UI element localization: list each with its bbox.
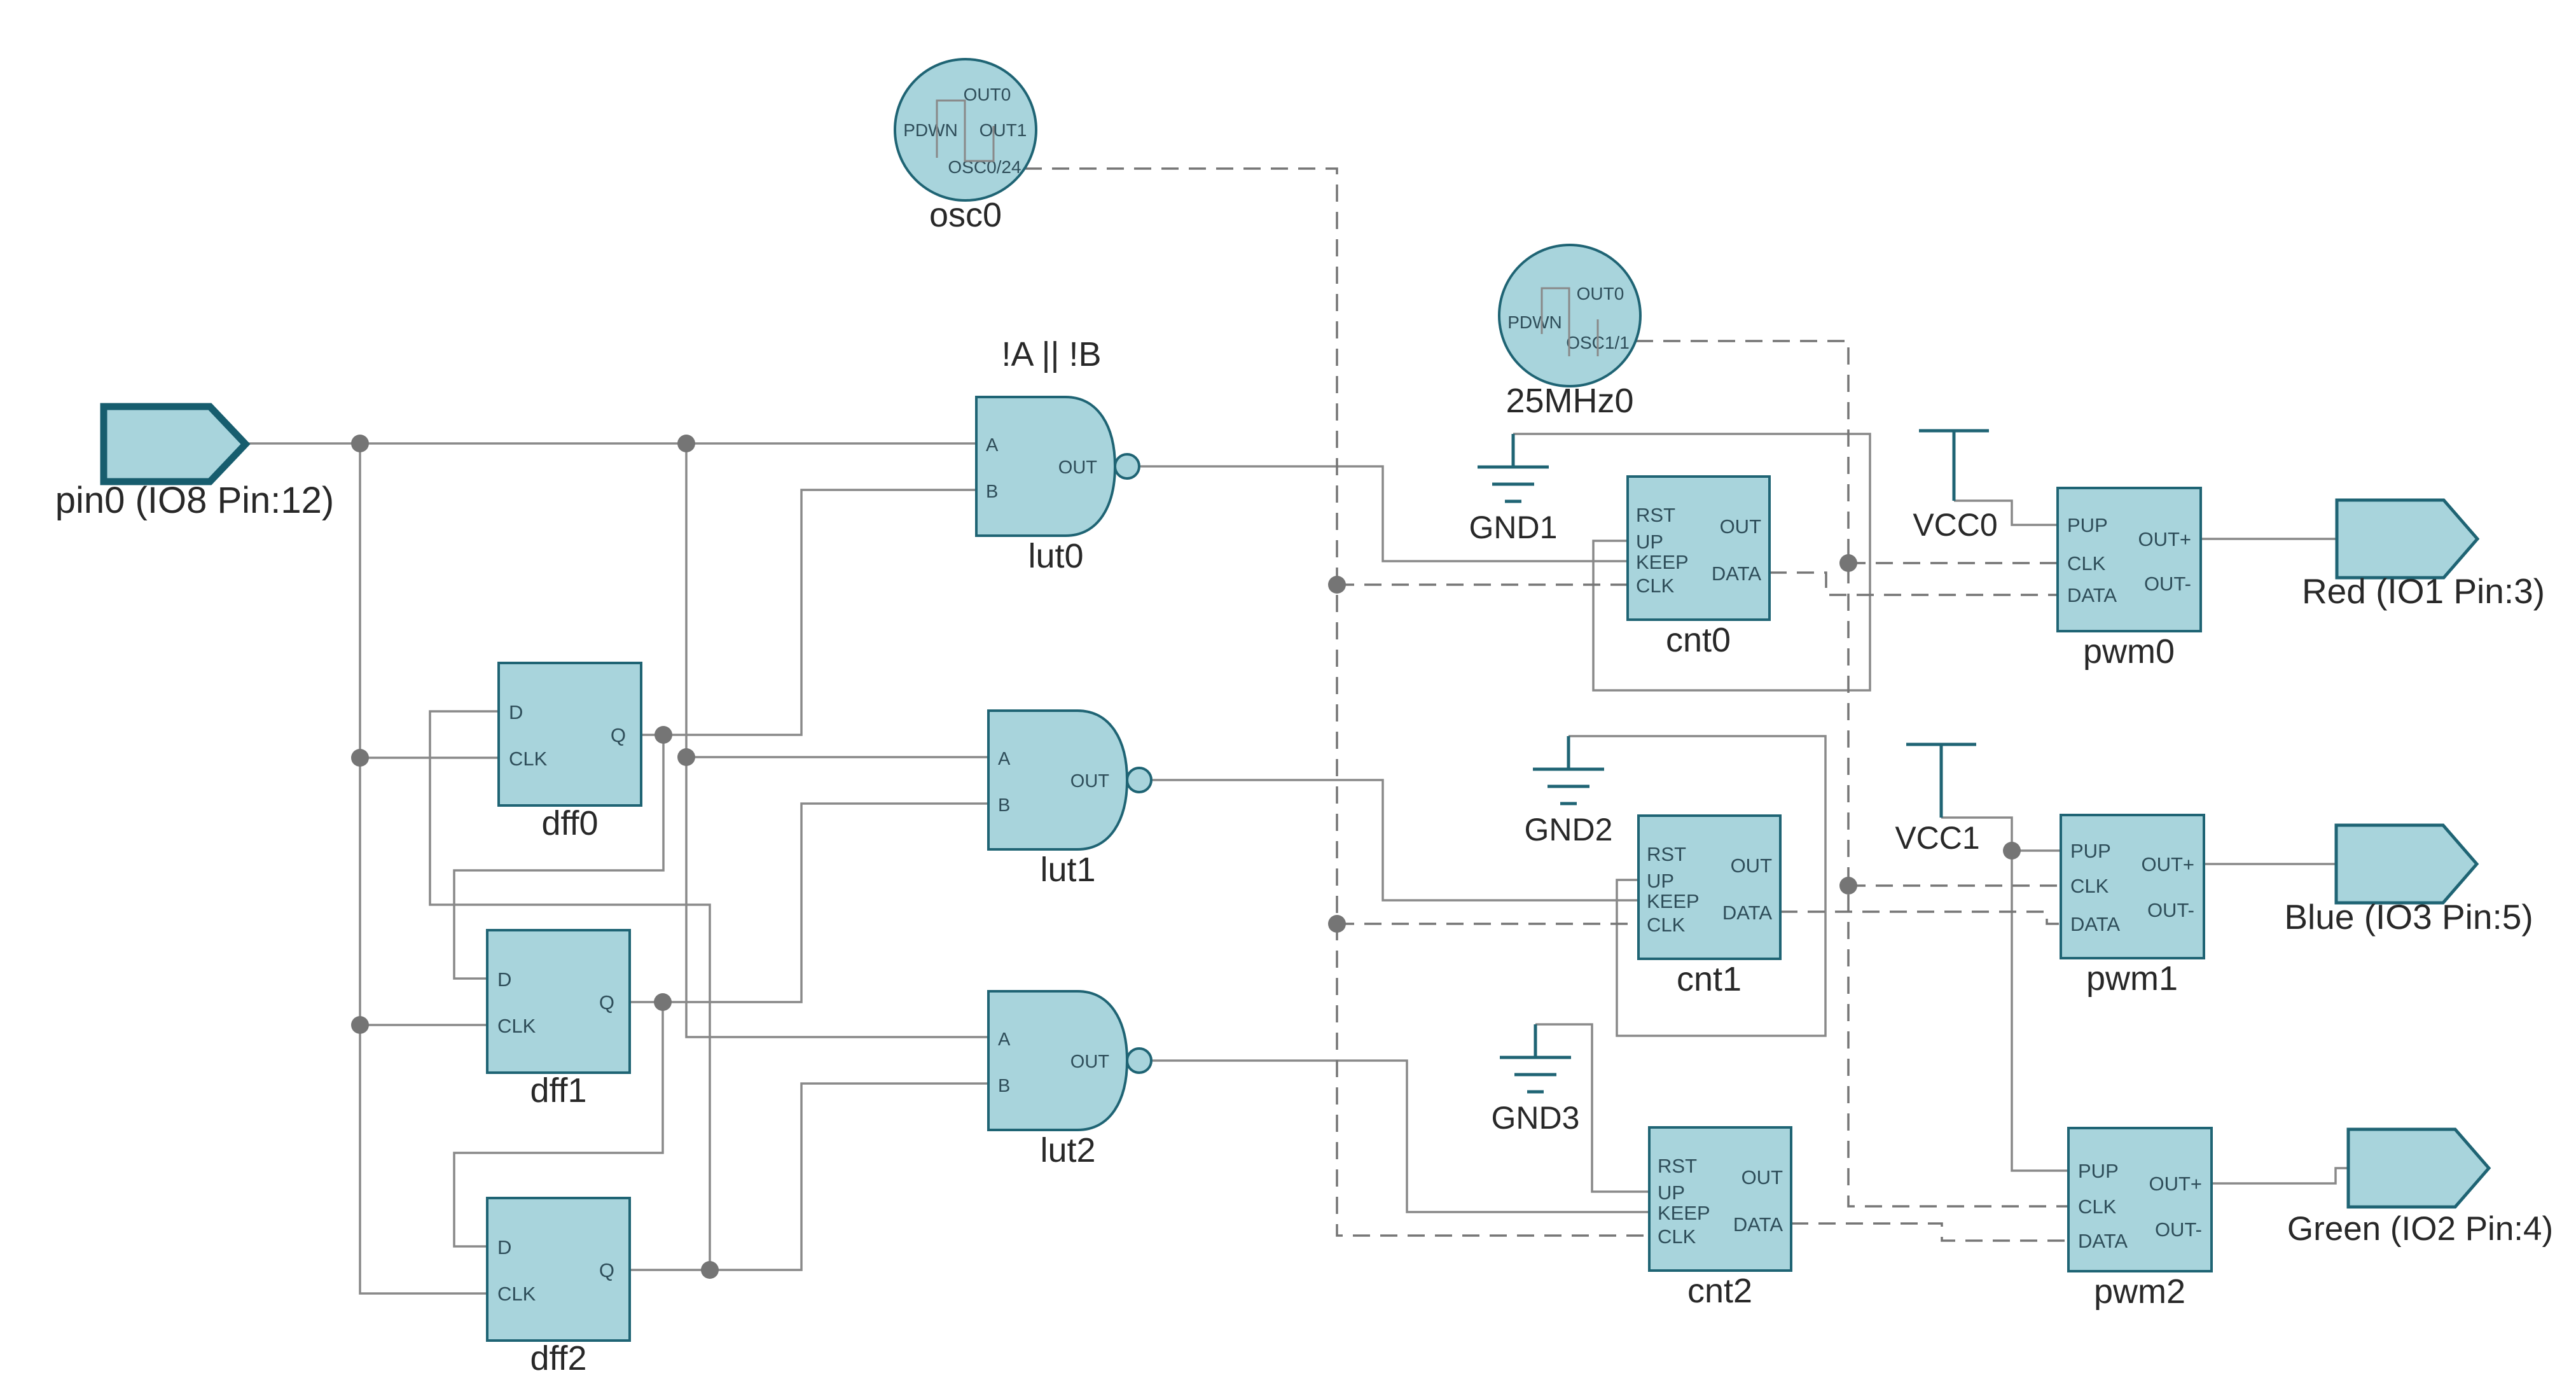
svg-text:cnt2: cnt2: [1687, 1272, 1752, 1310]
svg-text:D: D: [497, 968, 511, 991]
svg-text:RST: RST: [1658, 1155, 1697, 1177]
svg-text:OUT: OUT: [1731, 854, 1773, 877]
svg-text:DATA: DATA: [1722, 902, 1772, 924]
svg-text:UP: UP: [1647, 870, 1674, 892]
svg-text:Red (IO1 Pin:3): Red (IO1 Pin:3): [2302, 571, 2545, 611]
svg-text:PUP: PUP: [2070, 840, 2111, 862]
svg-text:OUT: OUT: [1070, 771, 1110, 791]
svg-text:lut2: lut2: [1040, 1131, 1095, 1169]
svg-text:OUT: OUT: [1070, 1052, 1110, 1072]
svg-text:VCC0: VCC0: [1913, 507, 1997, 543]
svg-text:PUP: PUP: [2078, 1160, 2119, 1182]
svg-text:pin0 (IO8 Pin:12): pin0 (IO8 Pin:12): [55, 480, 334, 521]
svg-text:lut0: lut0: [1028, 537, 1083, 575]
svg-text:GND1: GND1: [1469, 510, 1558, 545]
svg-text:RST: RST: [1636, 504, 1675, 526]
svg-text:CLK: CLK: [2067, 552, 2106, 575]
svg-text:cnt1: cnt1: [1677, 960, 1742, 998]
svg-text:OUT: OUT: [1742, 1166, 1783, 1188]
svg-text:osc0: osc0: [929, 196, 1002, 234]
svg-text:B: B: [986, 482, 998, 502]
svg-text:dff1: dff1: [530, 1071, 586, 1110]
svg-text:PDWN: PDWN: [1507, 312, 1562, 332]
svg-text:PDWN: PDWN: [903, 120, 958, 140]
svg-text:!A || !B: !A || !B: [1001, 335, 1101, 373]
svg-text:dff0: dff0: [541, 804, 598, 842]
svg-text:cnt0: cnt0: [1666, 621, 1731, 659]
svg-text:DATA: DATA: [1712, 562, 1761, 585]
svg-text:pwm2: pwm2: [2094, 1272, 2185, 1311]
svg-text:OUT-: OUT-: [2144, 573, 2191, 595]
svg-text:DATA: DATA: [2070, 913, 2120, 935]
svg-text:A: A: [986, 435, 999, 456]
svg-text:PUP: PUP: [2067, 514, 2108, 536]
svg-text:OUT-: OUT-: [2147, 899, 2194, 921]
svg-text:D: D: [509, 701, 523, 723]
svg-text:DATA: DATA: [2078, 1230, 2128, 1252]
svg-text:OUT+: OUT+: [2138, 528, 2191, 550]
svg-text:OUT: OUT: [1720, 515, 1762, 538]
svg-text:OUT: OUT: [1058, 457, 1098, 478]
svg-text:CLK: CLK: [1658, 1225, 1696, 1248]
svg-text:CLK: CLK: [497, 1283, 536, 1305]
svg-text:UP: UP: [1658, 1181, 1685, 1204]
svg-text:dff2: dff2: [530, 1339, 586, 1377]
svg-text:pwm1: pwm1: [2086, 959, 2178, 998]
svg-text:CLK: CLK: [1647, 914, 1686, 936]
svg-text:A: A: [998, 1029, 1011, 1050]
svg-text:25MHz0: 25MHz0: [1506, 382, 1633, 420]
svg-text:KEEP: KEEP: [1647, 890, 1700, 912]
svg-text:OUT1: OUT1: [980, 120, 1027, 140]
svg-text:Q: Q: [611, 724, 626, 746]
svg-text:Blue (IO3 Pin:5): Blue (IO3 Pin:5): [2284, 897, 2533, 937]
svg-text:KEEP: KEEP: [1658, 1202, 1710, 1224]
svg-text:CLK: CLK: [509, 748, 548, 770]
svg-text:DATA: DATA: [1733, 1213, 1783, 1236]
svg-text:Q: Q: [599, 991, 614, 1014]
svg-text:OUT0: OUT0: [964, 85, 1011, 104]
svg-text:B: B: [998, 795, 1010, 816]
svg-text:pwm0: pwm0: [2083, 632, 2175, 671]
svg-text:DATA: DATA: [2067, 584, 2117, 606]
svg-text:KEEP: KEEP: [1636, 551, 1689, 573]
svg-text:GND2: GND2: [1525, 812, 1613, 847]
svg-text:RST: RST: [1647, 843, 1686, 865]
svg-text:Green (IO2 Pin:4): Green (IO2 Pin:4): [2287, 1210, 2553, 1248]
svg-text:B: B: [998, 1076, 1010, 1096]
svg-text:lut1: lut1: [1040, 851, 1095, 889]
svg-text:CLK: CLK: [497, 1015, 536, 1037]
svg-text:OUT+: OUT+: [2141, 853, 2194, 875]
svg-text:CLK: CLK: [1636, 575, 1675, 597]
svg-text:GND3: GND3: [1492, 1100, 1580, 1136]
svg-text:OUT0: OUT0: [1577, 284, 1624, 303]
svg-text:A: A: [998, 749, 1011, 769]
svg-text:CLK: CLK: [2078, 1195, 2117, 1218]
svg-text:OUT+: OUT+: [2149, 1173, 2202, 1195]
svg-text:OUT-: OUT-: [2155, 1218, 2202, 1241]
svg-text:D: D: [497, 1236, 511, 1258]
svg-text:Q: Q: [599, 1259, 614, 1281]
svg-text:VCC1: VCC1: [1895, 820, 1979, 856]
svg-text:UP: UP: [1636, 531, 1663, 553]
svg-text:CLK: CLK: [2070, 875, 2109, 897]
